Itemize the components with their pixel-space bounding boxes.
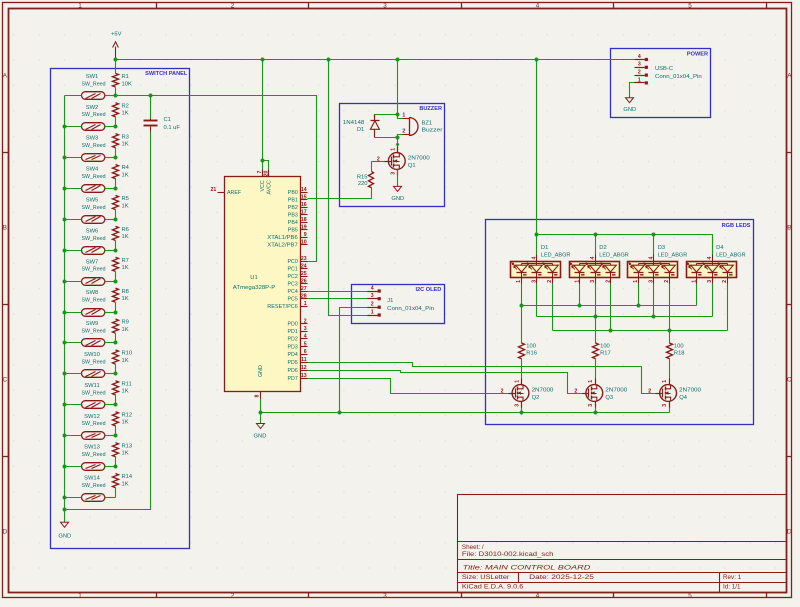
pin 27 PC4: [301, 291, 308, 293]
svg-text:B: B: [787, 225, 791, 232]
svg-text:1: 1: [391, 148, 397, 151]
svg-text:SW6: SW6: [86, 228, 99, 234]
svg-text:B: B: [3, 225, 7, 232]
pin 1 RESET/PC6: [301, 306, 308, 308]
pin 17 PB3: [301, 214, 308, 216]
junction red bus R18: [668, 329, 672, 333]
junction green bus R17: [594, 315, 598, 319]
wire SW12 left lead: [65, 435, 82, 437]
wire SW4 left lead: [65, 188, 82, 190]
svg-text:2: 2: [231, 592, 235, 599]
svg-text:SW_Reed: SW_Reed: [82, 483, 106, 489]
switch SW7 (SW_Reed): [82, 278, 105, 286]
wire Q1 source to GND: [397, 170, 399, 187]
svg-text:3: 3: [383, 592, 387, 599]
junction R ladder node 1: [114, 94, 118, 98]
wire R12 bottom: [115, 426, 117, 436]
LED D3 cathode pin 0: [638, 278, 640, 284]
svg-text:4: 4: [304, 334, 307, 340]
switch SW13 (SW_Reed): [82, 463, 105, 471]
connector J2 USB-C: [635, 59, 645, 61]
svg-text:PC0: PC0: [287, 259, 297, 265]
svg-text:LED_ABGR: LED_ABGR: [599, 253, 629, 259]
svg-text:2N7000: 2N7000: [679, 388, 701, 394]
wire +5V drop to buzzer: [397, 60, 399, 115]
wire SW7 left lead: [65, 281, 82, 283]
svg-text:GND: GND: [258, 365, 264, 377]
resistor R12: [113, 412, 119, 426]
pin 15 PB1: [301, 199, 308, 201]
wire Q4 source: [669, 408, 671, 413]
wire +5V rail: [116, 59, 635, 61]
svg-text:R15: R15: [357, 174, 368, 180]
LED D4 LED_ABGR: [687, 262, 737, 278]
svg-text:15: 15: [301, 195, 307, 201]
svg-text:PD5: PD5: [287, 360, 297, 366]
wire R5 bottom: [115, 210, 117, 220]
svg-text:23: 23: [301, 256, 307, 262]
svg-text:11: 11: [301, 357, 307, 363]
svg-text:1K: 1K: [122, 420, 129, 426]
wire diode bottom: [375, 137, 398, 139]
svg-text:PD1: PD1: [287, 329, 297, 335]
junction R ladder node 4: [114, 187, 118, 191]
svg-text:Q4: Q4: [679, 395, 688, 401]
pin 7 VCC: [262, 170, 264, 177]
svg-text:19: 19: [301, 225, 307, 231]
svg-text:USB-C: USB-C: [655, 66, 673, 72]
svg-text:17: 17: [301, 209, 307, 215]
LED D1 LED_ABGR: [511, 262, 561, 278]
junction R ladder node 12: [114, 434, 118, 438]
svg-text:1K: 1K: [122, 142, 129, 148]
svg-text:1K: 1K: [122, 265, 129, 271]
svg-text:PB1: PB1: [288, 198, 298, 204]
pin 4 PD2: [301, 338, 308, 340]
svg-text:LED_ABGR: LED_ABGR: [716, 253, 746, 259]
wire R7 bottom: [115, 272, 117, 282]
svg-text:13: 13: [301, 373, 307, 379]
svg-text:R4: R4: [122, 165, 130, 171]
svg-text:2: 2: [547, 280, 553, 283]
svg-text:10: 10: [301, 240, 307, 246]
resistor R14: [113, 474, 119, 488]
svg-text:SW_Reed: SW_Reed: [82, 236, 106, 242]
svg-text:File: D3010-002.kicad_sch: File: D3010-002.kicad_sch: [462, 551, 554, 558]
svg-text:1K: 1K: [122, 481, 129, 487]
svg-text:Buzzer: Buzzer: [422, 128, 443, 134]
wire SW5 right lead: [105, 219, 116, 221]
svg-text:SW12: SW12: [84, 414, 100, 420]
wire SW11 left lead: [65, 404, 82, 406]
svg-text:R9: R9: [122, 320, 129, 326]
wire SW6 left lead: [65, 250, 82, 252]
svg-text:100: 100: [674, 343, 684, 349]
junction R ladder node 7: [114, 280, 118, 284]
svg-text:9: 9: [304, 232, 307, 238]
junction GND rail OLED: [338, 411, 342, 415]
svg-text:GND: GND: [623, 107, 636, 113]
svg-text:RESET/PC6: RESET/PC6: [267, 304, 298, 310]
wire OLED pin2 to GND: [340, 308, 368, 413]
svg-text:R10: R10: [122, 351, 133, 357]
svg-text:RGB LEDS: RGB LEDS: [722, 223, 751, 229]
transistor Q2 2N7000: [512, 385, 529, 402]
junction bus/GND: [63, 508, 67, 512]
pin 2 PD0: [301, 323, 308, 325]
wire resistor to drain: [521, 359, 523, 379]
svg-text:2: 2: [402, 128, 405, 134]
wire PC5 to OLED pin3 (SCL): [308, 298, 368, 300]
svg-text:3: 3: [514, 404, 520, 407]
svg-text:Q2: Q2: [532, 395, 540, 401]
LED D3 cathode pin 2: [669, 278, 671, 284]
svg-text:D4: D4: [716, 245, 724, 251]
wire SW12 right lead: [105, 435, 116, 437]
svg-text:1: 1: [78, 592, 82, 599]
wire GND rail: [261, 412, 670, 414]
svg-text:R6: R6: [122, 227, 129, 233]
svg-text:25: 25: [301, 271, 307, 277]
wire LED anode rail: [537, 235, 713, 255]
svg-text:SW_Reed: SW_Reed: [82, 390, 106, 396]
wire green cathode bus: [536, 284, 538, 317]
junction LED rail D3: [652, 233, 656, 237]
svg-text:SW_Reed: SW_Reed: [82, 329, 106, 335]
svg-text:R5: R5: [122, 196, 129, 202]
wire SW10 left lead: [65, 373, 82, 375]
svg-text:1K: 1K: [122, 327, 129, 333]
svg-text:3: 3: [707, 280, 713, 283]
svg-text:R13: R13: [122, 443, 133, 449]
svg-text:R17: R17: [600, 351, 611, 357]
svg-text:0.1 uF: 0.1 uF: [164, 125, 181, 131]
svg-text:PD7: PD7: [287, 376, 297, 382]
svg-text:4: 4: [707, 257, 713, 260]
junction R ladder node 3: [114, 156, 118, 160]
svg-text:R8: R8: [122, 289, 129, 295]
resistor R17: [593, 343, 599, 359]
resistor R7: [113, 257, 119, 271]
svg-text:KiCad E.D.A. 9.0.6: KiCad E.D.A. 9.0.6: [462, 583, 524, 590]
resistor R2: [113, 103, 119, 117]
svg-text:SW9: SW9: [86, 321, 99, 327]
svg-text:28: 28: [301, 294, 307, 300]
switch SW8 (SW_Reed): [82, 309, 105, 317]
junction GND rail Q2: [520, 411, 524, 415]
svg-text:12: 12: [301, 365, 307, 371]
wire U1 GND: [260, 399, 262, 424]
junction green bus D3: [652, 315, 656, 319]
LED D2 cathode pin 1: [595, 278, 597, 284]
svg-text:BZ1: BZ1: [422, 121, 433, 127]
svg-text:100: 100: [600, 343, 610, 349]
transistor Q4 2N7000: [660, 385, 677, 402]
svg-text:C1: C1: [164, 117, 171, 123]
svg-text:3: 3: [590, 280, 596, 283]
wire SW1 left lead: [65, 95, 82, 97]
pin 9 XTAL1/PB6: [301, 237, 308, 239]
svg-text:D1: D1: [357, 127, 364, 133]
resistor R15: [369, 172, 374, 188]
svg-text:VCC: VCC: [260, 180, 266, 191]
svg-text:1K: 1K: [122, 111, 129, 117]
junction blue bus D3: [637, 304, 641, 308]
svg-text:D1: D1: [541, 245, 548, 251]
svg-text:SW11: SW11: [84, 383, 99, 389]
ground buzzer: [394, 186, 402, 191]
pin 16 PB2: [301, 207, 308, 209]
LED D4 cathode pin 2: [727, 278, 729, 284]
svg-text:PB3: PB3: [288, 212, 298, 218]
wire Q2 source: [521, 408, 523, 413]
wire SW1 right lead: [105, 95, 116, 97]
svg-text:220: 220: [358, 181, 368, 187]
svg-text:SW13: SW13: [84, 445, 100, 451]
wire buzzer pin1 net: [375, 115, 398, 118]
svg-text:8: 8: [255, 395, 261, 398]
svg-text:PC5: PC5: [287, 297, 297, 303]
junction buzzer pin2: [396, 136, 400, 140]
svg-text:18: 18: [301, 217, 307, 223]
capacitor C1: [150, 96, 152, 119]
resistor R8: [113, 288, 119, 302]
svg-text:SW3: SW3: [86, 136, 99, 142]
junction left bus SW7: [63, 280, 67, 284]
svg-text:R18: R18: [674, 351, 685, 357]
wire SW9 right lead: [105, 342, 116, 344]
junction left bus SW8: [63, 311, 67, 315]
svg-text:SW_Reed: SW_Reed: [82, 359, 106, 365]
svg-text:AVCC: AVCC: [267, 180, 273, 194]
svg-text:PB2: PB2: [288, 205, 298, 211]
resistor R16: [519, 343, 525, 359]
svg-text:3: 3: [532, 280, 538, 283]
buzzer BZ1: [409, 118, 411, 136]
svg-text:Conn_01x04_Pin: Conn_01x04_Pin: [655, 74, 702, 80]
switch SW2 (SW_Reed): [82, 123, 105, 131]
svg-text:1: 1: [638, 77, 641, 83]
wire SW9 left lead: [65, 342, 82, 344]
svg-text:R14: R14: [122, 474, 133, 480]
svg-text:SW8: SW8: [86, 290, 99, 296]
svg-text:3: 3: [648, 280, 654, 283]
svg-text:PB0: PB0: [288, 190, 298, 196]
svg-text:LED_ABGR: LED_ABGR: [541, 253, 571, 259]
LED D4 cathode pin 1: [712, 278, 714, 284]
wire SW7 right lead: [105, 281, 116, 283]
svg-text:PD3: PD3: [287, 344, 297, 350]
svg-text:1K: 1K: [122, 451, 129, 457]
wire PC4 to OLED pin4 (SDA): [308, 291, 368, 293]
LED D4 cathode pin 0: [696, 278, 698, 284]
svg-text:3: 3: [662, 404, 668, 407]
svg-text:1: 1: [662, 380, 668, 383]
junction left bus SW5: [63, 218, 67, 222]
junction R ladder node 2: [114, 125, 118, 129]
wire R9 bottom: [115, 334, 117, 343]
pin 26 PC3: [301, 283, 308, 285]
switch SW5 (SW_Reed): [82, 216, 105, 224]
switch SW10 (SW_Reed): [82, 370, 105, 378]
svg-text:3: 3: [638, 62, 641, 68]
junction left bus SW14: [63, 496, 67, 500]
wire resistor to drain: [595, 359, 597, 379]
svg-text:3: 3: [391, 172, 397, 175]
junction VCC/AVCC: [261, 159, 265, 163]
svg-text:R2: R2: [122, 103, 129, 109]
junction R ladder node 10: [114, 372, 118, 376]
pin 10 XTAL2/PB7: [301, 244, 308, 246]
svg-text:J1: J1: [387, 298, 393, 304]
wire buzzer pin2 to Q1: [398, 135, 403, 145]
wire keypad tap to PC0: [116, 96, 317, 262]
junction left bus SW10: [63, 372, 67, 376]
svg-text:26: 26: [301, 278, 307, 284]
wire R15 to PB1: [308, 188, 372, 199]
junction R ladder node 13: [114, 465, 118, 469]
junction left bus SW6: [63, 249, 67, 253]
switch SW14 (SW_Reed): [82, 494, 105, 502]
svg-text:4: 4: [638, 54, 641, 60]
svg-text:1: 1: [516, 280, 522, 283]
svg-text:PC1: PC1: [287, 266, 297, 272]
transistor Q1 2N7000: [397, 145, 399, 153]
pin 13 PD7: [301, 378, 308, 380]
switch SW1 (SW_Reed): [82, 92, 105, 100]
svg-text:2N7000: 2N7000: [408, 156, 430, 162]
wire R11 bottom: [115, 395, 117, 405]
svg-text:3: 3: [371, 293, 374, 299]
svg-text:Conn_01x04_Pin: Conn_01x04_Pin: [387, 306, 434, 312]
svg-text:BUZZER: BUZZER: [419, 106, 442, 112]
junction +5V/buzzer: [396, 58, 400, 62]
svg-text:R12: R12: [122, 412, 133, 418]
switch SW3 (SW_Reed): [82, 154, 105, 162]
svg-text:3: 3: [304, 326, 307, 332]
wire R3 bottom: [115, 148, 117, 158]
LED D2 LED_ABGR: [570, 262, 620, 278]
wire red cathode bus: [552, 284, 554, 331]
section box POWER: [611, 49, 711, 118]
pin 8 GND: [260, 392, 262, 399]
section box I2C OLED: [352, 285, 445, 324]
wire R8 bottom: [115, 303, 117, 312]
svg-text:1: 1: [402, 113, 405, 119]
svg-text:2: 2: [231, 2, 235, 9]
wire Q3 source: [595, 408, 597, 413]
svg-text:GND: GND: [391, 196, 404, 202]
junction +5V/LEDs: [535, 58, 539, 62]
resistor R4: [113, 165, 119, 179]
junction C1 top: [149, 94, 153, 98]
junction LED rail D2: [594, 233, 598, 237]
svg-text:1: 1: [304, 301, 307, 307]
svg-text:24: 24: [301, 263, 307, 269]
svg-text:PD0: PD0: [287, 321, 297, 327]
LED D2 cathode pin 0: [579, 278, 581, 284]
svg-text:14: 14: [301, 187, 307, 193]
svg-text:SW2: SW2: [86, 105, 99, 111]
switch SW11 (SW_Reed): [82, 401, 105, 409]
svg-text:PD2: PD2: [287, 337, 297, 343]
wire R6 bottom: [115, 241, 117, 251]
LED D1 cathode pin 1: [536, 278, 538, 284]
svg-text:1N4148: 1N4148: [343, 120, 365, 126]
svg-text:LED_ABGR: LED_ABGR: [658, 253, 688, 259]
svg-text:SW_Reed: SW_Reed: [82, 298, 106, 304]
pin 20 AVCC: [268, 170, 270, 177]
svg-text:1: 1: [633, 280, 639, 283]
title block: [458, 495, 787, 593]
svg-text:1K: 1K: [122, 358, 129, 364]
wire SW8 left lead: [65, 312, 82, 314]
junction R ladder node 8: [114, 311, 118, 315]
wire Q1 gate to R15: [372, 161, 385, 163]
wire R2 bottom: [115, 117, 117, 127]
switch SW12 (SW_Reed): [82, 432, 105, 440]
svg-text:U1: U1: [250, 275, 257, 281]
svg-text:SWITCH PANEL: SWITCH PANEL: [145, 71, 188, 77]
pin 28 PC5: [301, 298, 308, 300]
svg-text:PC2: PC2: [287, 274, 297, 280]
svg-text:Size: USLetter: Size: USLetter: [462, 574, 510, 581]
svg-text:I2C OLED: I2C OLED: [415, 287, 441, 293]
wire GND stem switch panel: [64, 510, 66, 523]
svg-text:R7: R7: [122, 258, 129, 264]
svg-text:1K: 1K: [122, 389, 129, 395]
wire blue cathode bus: [521, 284, 523, 344]
svg-text:1: 1: [514, 380, 520, 383]
svg-text:4: 4: [536, 592, 540, 599]
svg-text:+5V: +5V: [111, 31, 122, 37]
resistor R11: [113, 381, 119, 395]
svg-text:Q1: Q1: [408, 163, 416, 169]
pin 6 PD4: [301, 354, 308, 356]
junction +5V/VCC: [261, 58, 265, 62]
svg-text:2: 2: [722, 280, 728, 283]
svg-text:SW7: SW7: [86, 259, 99, 265]
svg-text:POWER: POWER: [687, 51, 708, 57]
wire SW2 left lead: [65, 126, 82, 128]
junction R ladder node 11: [114, 403, 118, 407]
svg-text:GND: GND: [58, 533, 71, 539]
LED D3 cathode pin 1: [653, 278, 655, 284]
junction blue bus R16: [520, 304, 524, 308]
ground power: [626, 98, 634, 103]
svg-text:R11: R11: [122, 382, 132, 388]
svg-text:4: 4: [371, 285, 374, 291]
wire D2 anode drop: [595, 235, 597, 255]
wire PD7 to Q2 gate: [308, 379, 509, 394]
svg-text:2: 2: [371, 302, 374, 308]
resistor R9: [113, 319, 119, 333]
resistor R13: [113, 443, 119, 457]
pin 12 PD6: [301, 370, 308, 372]
junction left bus SW2: [63, 125, 67, 129]
svg-text:Rev: 1: Rev: 1: [723, 574, 742, 581]
pin 14 PB0: [301, 192, 308, 194]
wire SW4 right lead: [105, 188, 116, 190]
svg-text:Id: 1/1: Id: 1/1: [723, 583, 741, 590]
svg-text:5: 5: [304, 341, 307, 347]
svg-text:SW_Reed: SW_Reed: [82, 452, 106, 458]
svg-text:C: C: [787, 377, 792, 384]
pin 23 PC0: [301, 261, 308, 263]
svg-text:2N7000: 2N7000: [605, 388, 627, 394]
wire SW14 right lead: [105, 497, 116, 499]
svg-text:5: 5: [688, 2, 692, 9]
